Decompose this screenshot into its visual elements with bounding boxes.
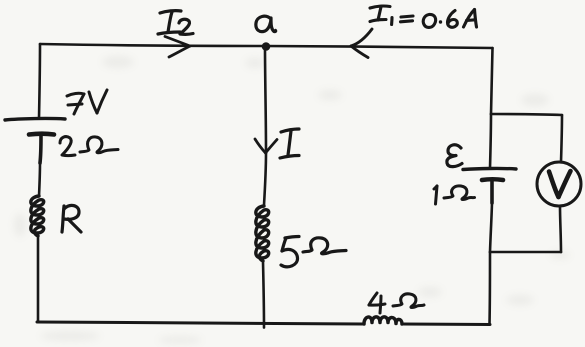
label 4Ω <box>369 293 424 313</box>
wire left (battery stem down to resistor R) <box>39 163 40 196</box>
voltmeter V: circle body <box>537 162 581 206</box>
wire middle lower (5Ω resistor down to bottom wire) <box>263 262 264 328</box>
resistor R (coil) <box>31 196 44 236</box>
wire middle (I arrow down to 5Ω resistor) <box>264 153 266 205</box>
battery B1 7V: short plate <box>29 131 54 136</box>
label I (middle branch current) <box>280 129 299 158</box>
battery ε: short-plate stem <box>490 180 494 203</box>
node a: junction dot <box>262 42 271 51</box>
node a: label <box>256 16 276 31</box>
wire bottom left (bottom-left corner to 4Ω resistor) <box>37 322 363 324</box>
wire right (junction down to battery ε top plate) <box>490 114 491 168</box>
wire right (battery stem down to lower junction) <box>490 203 492 252</box>
battery ε: short plate <box>482 177 503 182</box>
wire right upper (top-right corner down to voltmeter-branch junction) <box>491 48 493 114</box>
label 1Ω (internal resistance of ε) <box>434 186 475 204</box>
resistor 4Ω (bumps on bottom wire) <box>364 317 402 324</box>
label 7V <box>67 90 107 114</box>
wire voltmeter-branch bottom (back to main right wire) <box>490 251 561 254</box>
wire voltmeter-branch right lower (voltmeter down to bottom of branch) <box>560 206 561 252</box>
battery B1 7V: short-plate stem <box>40 135 41 163</box>
voltmeter V: meter glyph <box>549 171 571 197</box>
wire top (from top-left corner through node a to top-right corner) <box>40 44 493 48</box>
wire left lower (resistor R down to bottom-left corner) <box>37 237 40 322</box>
label R <box>62 205 81 232</box>
battery B1 7V: long plate <box>5 118 65 120</box>
wire middle upper (node a down to I arrow) <box>265 47 266 153</box>
label I2 <box>158 11 193 35</box>
wire voltmeter-branch right upper (down to voltmeter) <box>561 115 562 162</box>
label ε (emf) <box>447 145 462 167</box>
battery ε: long plate <box>463 168 516 169</box>
wire left upper (top-left corner down to battery top plate) <box>39 44 40 118</box>
wire voltmeter-branch top (junction right to voltmeter column) <box>491 114 562 115</box>
label 5Ω <box>281 237 346 267</box>
wire right lower (lower junction down to bottom-right corner) <box>488 252 491 325</box>
label 2Ω (internal resistance of 7V battery) <box>60 137 118 156</box>
label I1 = 0.6A <box>370 6 477 27</box>
wire bottom right (4Ω resistor to bottom-right corner) <box>402 323 490 327</box>
resistor 5Ω (coil) <box>256 206 269 261</box>
arrow for I1 (pointing left, on top wire) <box>351 29 372 58</box>
arrow for I2 (pointing right, on top wire) <box>165 37 190 58</box>
arrow for I (pointing down, on middle wire) <box>255 139 277 153</box>
